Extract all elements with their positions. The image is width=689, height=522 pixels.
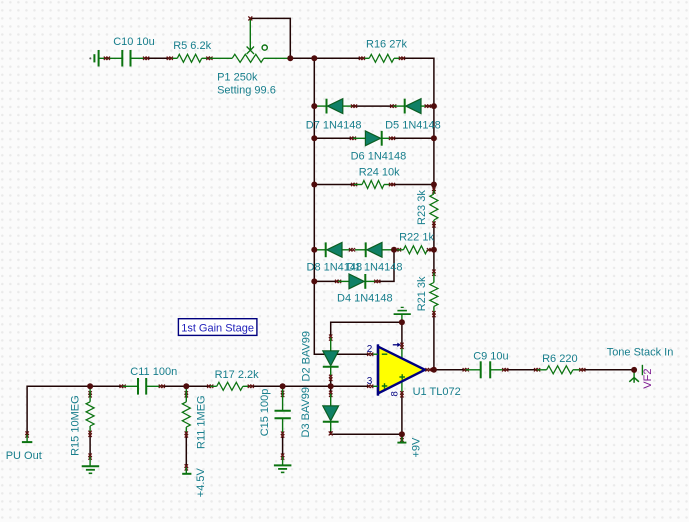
diode D4 1N4148 <box>335 280 338 283</box>
capacitor C15 <box>281 391 284 394</box>
svg-text:R6 220: R6 220 <box>542 353 577 365</box>
svg-text:C15 100p: C15 100p <box>259 389 271 437</box>
wire R11 to +4.5V <box>185 435 187 468</box>
svg-text:R21 3k: R21 3k <box>416 276 428 311</box>
svg-text:C9 10u: C9 10u <box>473 351 508 363</box>
junction D8 row left <box>311 247 317 253</box>
wire R24 row <box>314 184 354 186</box>
diode D2 BAV99 <box>329 335 332 338</box>
junction D5 row right <box>431 103 437 109</box>
terminal +4.5V <box>185 464 188 467</box>
svg-text:Tone Stack In: Tone Stack In <box>607 347 674 359</box>
wire C15 to ground <box>282 435 284 457</box>
wire top node P1 to left bus <box>290 57 314 59</box>
svg-text:C11 100n: C11 100n <box>130 366 177 378</box>
diode D8 1N4148 <box>314 249 325 251</box>
ground (above op-amp, inverted) <box>401 306 404 308</box>
svg-text:R17 2.2k: R17 2.2k <box>215 369 260 381</box>
node input stray dot <box>89 57 91 59</box>
junction D4 row left <box>311 278 317 284</box>
node output <box>431 367 437 373</box>
diode D1 1N4148 <box>355 249 366 251</box>
pin 2 <box>371 353 378 355</box>
svg-text:PU Out: PU Out <box>6 450 42 462</box>
pin 3 <box>371 385 378 387</box>
wire D6 row <box>314 137 353 139</box>
svg-text:D1 1N4148: D1 1N4148 <box>347 262 403 274</box>
junction D6 row left <box>311 135 317 141</box>
svg-text:R15 10MEG: R15 10MEG <box>70 395 82 456</box>
right bus segments <box>433 106 435 190</box>
resistor R6 <box>534 368 537 371</box>
junction D2-D3 <box>328 383 334 389</box>
potentiometer P1 <box>209 57 232 59</box>
resistor R11 <box>185 391 188 394</box>
diode D6 1N4148 <box>350 137 353 140</box>
pin 8 <box>400 391 403 394</box>
wire D8 row right junction to R22 <box>430 249 434 251</box>
svg-text:3: 3 <box>367 376 373 387</box>
svg-text:R11 1MEG: R11 1MEG <box>196 395 208 449</box>
junction D1-R22 <box>391 247 397 253</box>
svg-text:R22 1k: R22 1k <box>399 231 434 243</box>
svg-text:U1 TL072: U1 TL072 <box>413 386 461 398</box>
wire opamp top pin <box>401 322 403 346</box>
svg-text:R5 6.2k: R5 6.2k <box>173 40 211 52</box>
junction R15 top <box>87 383 93 389</box>
wire pot wiper loop <box>250 18 290 58</box>
pin 4 arrow <box>400 343 403 346</box>
svg-text:1st Gain Stage: 1st Gain Stage <box>181 322 254 334</box>
svg-text:VF2: VF2 <box>642 369 654 389</box>
svg-text:Setting 99.6: Setting 99.6 <box>217 85 276 97</box>
wire C10 to R5 <box>146 57 170 59</box>
+9V power terminal <box>400 436 403 439</box>
svg-text:+4.5V: +4.5V <box>195 467 207 497</box>
terminal Tone Stack In <box>633 370 635 378</box>
capacitor C11 <box>120 385 123 388</box>
ground below C15 <box>281 454 284 457</box>
resistor R16 <box>362 57 369 59</box>
diode D3 BAV99 <box>329 391 332 394</box>
svg-text:D3 BAV99: D3 BAV99 <box>300 387 312 438</box>
wire opamp gnd node to D2 <box>331 322 402 337</box>
wire output node <box>429 369 466 371</box>
diode D5 1N4148 <box>390 104 393 107</box>
resistor R23 <box>432 187 435 190</box>
junction C15 top <box>280 383 286 389</box>
svg-text:P1 250k: P1 250k <box>217 71 258 83</box>
left bus x=314.3 <box>314 58 369 354</box>
junction R24 row left <box>311 182 317 188</box>
node tone stack <box>631 367 637 373</box>
terminal PU Out <box>25 431 28 434</box>
svg-text:2: 2 <box>367 344 373 355</box>
resistor R24 <box>351 183 354 186</box>
svg-text:+9V: +9V <box>410 437 422 458</box>
capacitor C10 (polarized input cap) <box>93 54 95 62</box>
junction D6 row right <box>431 135 437 141</box>
textbox 1st Gain Stage <box>178 319 257 336</box>
wire R15 to ground <box>89 434 91 457</box>
op-amp U1 TL072 <box>401 346 403 359</box>
node feedback bus top <box>311 55 317 61</box>
svg-text:D6 1N4148: D6 1N4148 <box>351 151 407 163</box>
wire R16 to right bus corner <box>402 58 434 106</box>
junction R24 row right <box>431 182 437 188</box>
svg-text:R23 3k: R23 3k <box>416 190 428 225</box>
wire D7/D5 row middle <box>354 105 393 107</box>
wire D4 row <box>314 280 338 282</box>
resistor R5 <box>170 57 178 59</box>
junction R22 right <box>431 247 437 253</box>
svg-text:D2 BAV99: D2 BAV99 <box>301 331 313 382</box>
svg-text:D4 1N4148: D4 1N4148 <box>337 293 393 305</box>
svg-text:8: 8 <box>390 391 401 396</box>
diode D7 1N4148 <box>314 105 326 107</box>
resistor R15 <box>88 391 91 394</box>
resistor R22 <box>395 248 398 251</box>
resistor R17 <box>207 385 210 388</box>
capacitor C9 <box>425 368 428 371</box>
svg-text:R16 27k: R16 27k <box>366 39 407 51</box>
wire bottom rail <box>27 386 123 434</box>
wire left bus to R16 <box>314 57 362 59</box>
node pot top <box>287 55 293 61</box>
svg-text:D5 1N4148: D5 1N4148 <box>385 120 441 132</box>
wire opamp bottom pin to +9V node <box>401 394 403 434</box>
wire D2 to bottom rail <box>330 378 332 387</box>
junction D7 row left <box>311 103 317 109</box>
junction op-amp gnd <box>399 319 405 325</box>
ground below R15 <box>88 454 91 457</box>
wire D3 down and to +9V node <box>330 386 332 394</box>
svg-text:R24 10k: R24 10k <box>359 167 400 179</box>
junction R11 top <box>183 383 189 389</box>
junction +9V node <box>399 431 405 437</box>
resistor R21 <box>432 270 435 273</box>
svg-text:D7 1N4148: D7 1N4148 <box>306 120 362 132</box>
svg-text:C10 10u: C10 10u <box>113 36 155 48</box>
